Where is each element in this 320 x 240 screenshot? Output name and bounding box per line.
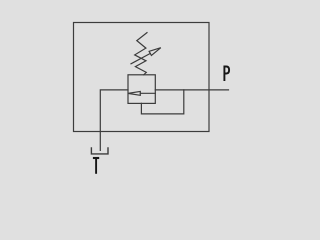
wire: P-port line from valve right	[155, 89, 228, 91]
wire: pilot sense line (valve bottom to P line)	[141, 90, 183, 114]
valve V1 (relief valve square)	[128, 75, 155, 104]
wire: T-port line from valve left	[100, 90, 128, 150]
tank symbol	[91, 148, 108, 154]
port label P	[224, 67, 229, 82]
adjustment arrowhead	[149, 48, 161, 56]
enclosure box (valve assembly boundary)	[74, 23, 210, 132]
valve internal flow line	[140, 92, 155, 94]
port label T	[93, 158, 99, 174]
adjustment arrow shaft	[131, 53, 150, 63]
spring (adjustable, zigzag)	[135, 33, 147, 75]
valve flow arrowhead (open triangle)	[128, 91, 140, 95]
